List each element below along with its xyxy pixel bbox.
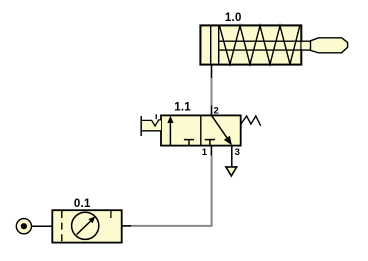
compressed air source	[16, 219, 31, 234]
svg-text:3: 3	[235, 147, 240, 158]
valve 1.1 port 2 pin	[211, 106, 213, 116]
valve 1.1 port 3 line	[231, 146, 233, 167]
port label 3	[235, 147, 240, 158]
valve 1.1 body	[161, 115, 241, 145]
valve 1.1 manual actuator with detent	[141, 114, 161, 136]
label 1.0	[225, 12, 242, 24]
cylinder 1.0 return spring	[220, 26, 300, 64]
svg-text:0.1: 0.1	[74, 198, 91, 210]
cylinder 1.0 piston rod	[219, 41, 311, 50]
label 0.1	[74, 198, 91, 210]
valve 1.1 left-position flow arrow	[167, 116, 173, 145]
exhaust triangle at port 3	[226, 167, 237, 176]
valve 1.1 return spring	[241, 116, 261, 126]
service unit 0.1 body	[52, 210, 121, 242]
service unit dashed separator	[61, 211, 63, 242]
valve 1.1 flow path 2 to 3	[212, 116, 232, 146]
valve 1.1 blocked port 1 in rest position	[205, 140, 215, 146]
valve 1.1 left-position blocked port	[184, 140, 194, 146]
pressure gauge	[72, 212, 99, 239]
svg-text:1.0: 1.0	[225, 12, 242, 24]
cylinder 1.0 body	[200, 25, 301, 64]
svg-text:1.1: 1.1	[174, 101, 191, 113]
service unit 0.1 pin	[122, 225, 132, 227]
wire cylinder to valve port 2	[211, 78, 213, 106]
service unit vent tick	[110, 211, 112, 219]
wire valve port 1 to service unit	[131, 156, 211, 226]
port label 1	[202, 147, 208, 158]
valve 1.1 port 1 pin	[210, 146, 212, 156]
cylinder 1.0 piston	[211, 26, 219, 65]
cylinder 1.0 rod end knob	[311, 38, 348, 53]
cylinder 1.0 port pin	[211, 65, 213, 79]
wire source to service unit	[32, 225, 53, 227]
port label 2	[214, 106, 219, 117]
label 1.1	[174, 101, 191, 113]
svg-text:1: 1	[202, 147, 208, 158]
